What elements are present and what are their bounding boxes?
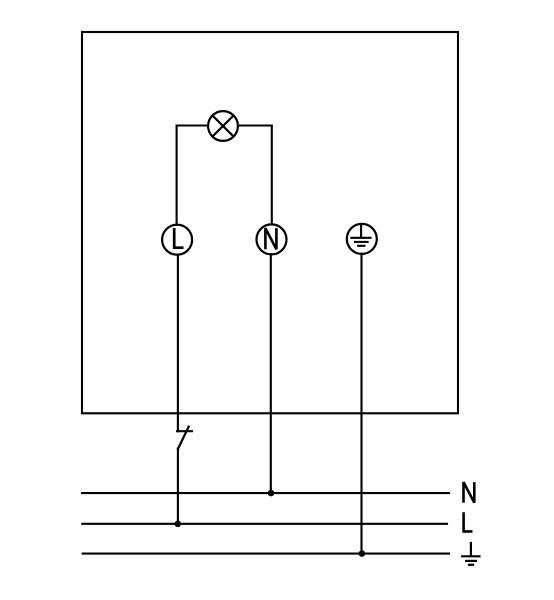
label L (net name) xyxy=(464,512,473,531)
wire terminal N to N bus xyxy=(270,254,272,493)
wire terminal PE to PE bus xyxy=(360,254,362,554)
enclosure box (device outline) xyxy=(82,32,458,413)
label N (net name) xyxy=(464,482,475,503)
ground symbol (PE net) xyxy=(461,542,481,565)
wire lamp to terminal L xyxy=(177,126,208,225)
wire switch to L bus xyxy=(177,449,179,524)
lamp E1 xyxy=(208,111,238,141)
junction L xyxy=(175,521,182,528)
terminal L xyxy=(162,225,192,255)
N bus line xyxy=(82,492,449,494)
PE bus line xyxy=(83,553,449,555)
wire terminal L to switch xyxy=(177,255,179,432)
wire lamp to terminal N xyxy=(238,126,272,225)
terminal N xyxy=(257,224,287,254)
junction PE xyxy=(359,550,366,557)
L bus line xyxy=(82,523,447,525)
switch S1 xyxy=(177,427,192,449)
terminal PE (earth) xyxy=(347,224,377,254)
junction N xyxy=(268,490,275,497)
